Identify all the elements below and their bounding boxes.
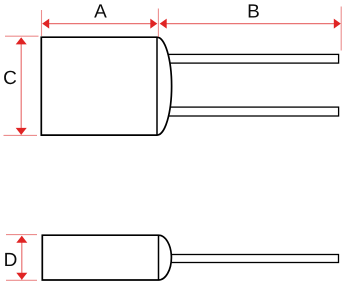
dimension line D	[21, 236, 23, 279]
top lead upper	[157, 54, 339, 63]
extension line mid (A/B)	[157, 9, 159, 38]
D top tick	[6, 234, 37, 236]
dimension line B	[161, 23, 341, 25]
extension line right (B)	[340, 7, 342, 51]
arrowhead D up	[16, 236, 27, 243]
extension line left (A)	[41, 10, 43, 36]
D bottom tick	[6, 279, 37, 281]
svg-text:A: A	[94, 1, 107, 22]
component body (bottom view)	[42, 235, 171, 280]
C top tick	[5, 35, 39, 37]
svg-text:B: B	[247, 1, 260, 22]
arrowhead B left	[160, 19, 167, 29]
arrowhead C up	[16, 37, 27, 44]
arrowhead C down	[16, 128, 27, 135]
C bottom tick	[4, 134, 38, 136]
bottom lead	[164, 255, 339, 263]
body right edge line (bottom view)	[158, 235, 160, 280]
dimension line C	[20, 38, 22, 135]
component body (top view)	[41, 37, 171, 135]
arrowhead D down	[16, 273, 27, 280]
body right edge line	[156, 37, 158, 135]
arrowhead A right	[150, 19, 157, 29]
svg-text:D: D	[4, 250, 18, 271]
top lead lower	[157, 107, 339, 116]
arrowhead B right	[334, 19, 341, 29]
svg-text:C: C	[3, 68, 17, 89]
dimension line A	[43, 23, 157, 25]
arrowhead A left	[42, 19, 49, 29]
